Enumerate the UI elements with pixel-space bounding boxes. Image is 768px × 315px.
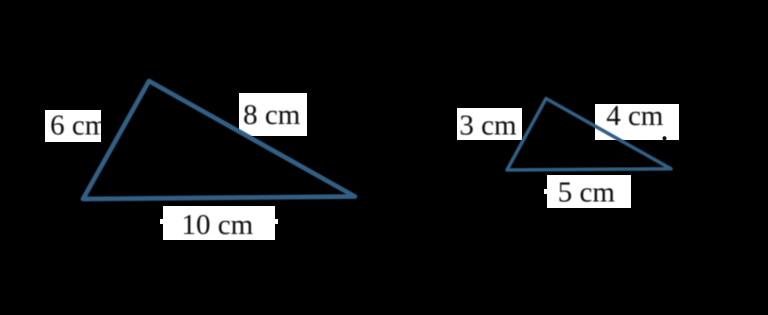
small triangle (3-4-5)	[507, 99, 671, 171]
label box 3 cm	[457, 108, 522, 140]
svg-text:3 cm: 3 cm	[459, 110, 517, 142]
handle nub right of 10 cm box	[274, 219, 278, 224]
label box 8 cm (clipped below hypotenuse)	[239, 93, 307, 136]
small dot on 4 cm box bottom edge	[663, 136, 667, 140]
label box 4 cm	[595, 104, 679, 140]
handle nub left of 5 cm box	[544, 189, 548, 194]
large triangle (6-8-10)	[83, 81, 355, 199]
svg-text:4 cm: 4 cm	[606, 100, 664, 132]
handle nub left of 10 cm box	[160, 219, 164, 224]
svg-text:8 cm: 8 cm	[243, 99, 301, 131]
svg-text:6 cm: 6 cm	[50, 110, 108, 142]
svg-text:5 cm: 5 cm	[558, 177, 616, 209]
label box 10 cm	[163, 206, 275, 240]
label box 6 cm	[45, 110, 101, 142]
svg-text:10 cm: 10 cm	[182, 209, 254, 241]
label box 5 cm	[547, 175, 631, 208]
